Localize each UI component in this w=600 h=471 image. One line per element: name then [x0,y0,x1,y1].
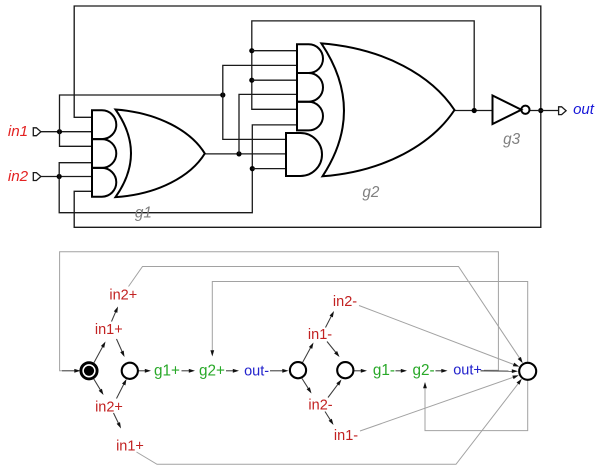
arc in2- to P4 [359,306,515,366]
AND gate g1 and3 [92,168,116,197]
place P3 [337,362,353,378]
arc into P0 arrowhead [62,370,77,372]
arc P1 to g1+ [139,370,147,372]
svg-text:g2: g2 [362,184,380,201]
wire in1 to g1 AND2 [60,132,93,147]
wire in1 to g2 AND1 [223,65,297,95]
svg-text:in1+: in1+ [116,439,144,455]
arc in1- to in2- [326,315,332,328]
OR gate g2 [321,43,454,176]
arc in1+b to P4 (wrap bottom) [137,383,519,465]
arc P4 to g2+ (wrap) [212,282,527,363]
svg-text:in2-: in2- [308,398,332,414]
wire g2 feedback net [252,21,474,111]
arc P3 to g1- [354,370,363,372]
arc g1- to g2- [396,370,403,372]
arc g1+ to g2+ [182,370,191,372]
AND gate g1 and2 [92,139,116,168]
svg-text:in2: in2 [8,168,29,185]
arc in2-b to in1-b [325,412,331,422]
token in P0 [84,366,94,376]
node g2out junction [472,108,477,113]
arc P2 to in1- [302,346,311,363]
node g2fb AND1 junction [249,48,254,53]
inverter g3 [493,96,522,125]
arc P0 to in2+b [94,379,102,392]
arc out+ to P0 (wrap around) [60,252,499,371]
wire in2 down and up to g2 AND3 [59,125,297,213]
wire [74,6,541,227]
wire in1 up to g2 [60,95,223,132]
wire in1 to g1 [41,131,92,133]
arc out- to P2 [270,370,284,372]
AND gate g2 and1 [297,44,323,73]
input port in2 [33,173,41,181]
node in2/g2 junction [250,166,255,171]
wire in2 to g1 AND3 [41,176,92,178]
OR gate g1 [116,110,205,198]
svg-text:g1-: g1- [373,362,395,379]
place P2 [290,362,306,378]
svg-text:in1-: in1- [334,428,358,444]
svg-text:out+: out+ [453,363,482,379]
svg-text:in2-: in2- [333,294,357,310]
arc in2+ to P4 (wrap top) [129,267,521,359]
wire in2 to g1 AND2 [59,163,92,177]
wire g1 output to g2 AND4 [205,153,286,155]
wire g2fb to g2 AND2 [252,79,297,81]
wire g1out up to g2 AND2 [239,94,297,153]
svg-text:in1-: in1- [308,327,332,343]
input port in1 [33,128,41,136]
node g1out junction [236,151,241,156]
svg-text:out: out [573,101,595,118]
svg-text:g2-: g2- [413,362,435,379]
arc in1- to P3 [327,342,337,354]
arc in2-b to P3 [328,383,339,397]
arc P0 to in1+ [94,346,104,364]
wire g2fb to g2 AND1 [252,50,297,52]
svg-text:in2+: in2+ [95,400,123,416]
svg-text:in1+: in1+ [95,322,123,338]
AND gate g2 and4 [286,133,322,176]
arc in2+b to in1+b [114,413,120,424]
arc g2- to out+ [436,370,444,372]
place P4 [519,363,536,380]
node in1 junction [57,129,62,134]
AND gate g1 and1 [92,110,116,139]
svg-text:g3: g3 [503,131,521,148]
svg-text:in2+: in2+ [109,288,137,304]
svg-text:g1+: g1+ [154,362,180,379]
wire g3 output to out port [530,110,559,112]
svg-text:out-: out- [244,364,269,380]
arc in1+ to P1 [117,339,123,353]
arc out+ to P4 [481,370,514,372]
node out feedback junction [538,108,543,113]
place P1 [122,363,138,379]
svg-text:in1: in1 [8,123,28,140]
arc P4 to g2- (wrap) [425,381,528,431]
output port out [559,107,567,115]
AND gate g2 and3 [297,102,323,131]
wire in1 to g2 AND4 [223,95,286,139]
arc in1-b to P4 [360,377,515,431]
wire g2 output to g3 [455,110,493,112]
svg-text:g1: g1 [135,204,152,221]
node g2fb AND2 junction [249,78,254,83]
arc P2 to in2-b [302,379,309,390]
wire in2 to g2 AND4 [252,168,286,170]
node in2 junction [57,174,62,179]
place P0 [81,363,97,379]
arc g2+ to out- [226,370,235,372]
svg-text:g2+: g2+ [199,362,225,379]
node in1/g2 junction [220,92,225,97]
arc in2+b to P1 [117,383,125,399]
AND gate g2 and2 [297,73,323,102]
arc in1+ to in2+ [112,311,117,322]
